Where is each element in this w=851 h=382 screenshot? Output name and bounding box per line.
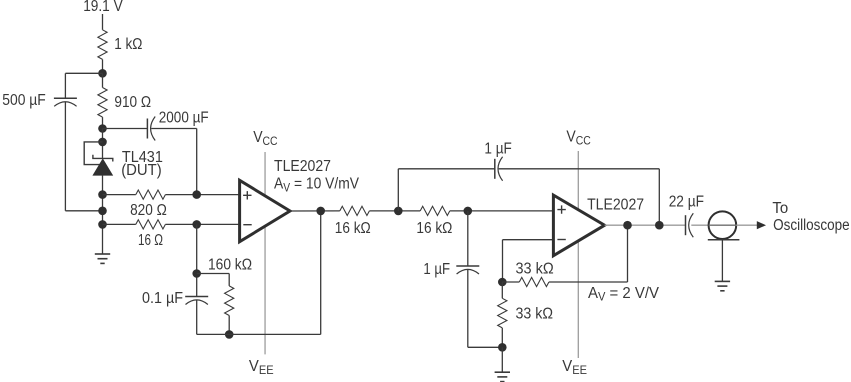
svg-text:19.1 V: 19.1 V [83,0,123,15]
svg-text:500 µF: 500 µF [2,92,46,109]
svg-text:TLE2027: TLE2027 [274,158,331,175]
svg-text:22 µF: 22 µF [669,193,704,210]
svg-text:1 µF: 1 µF [484,141,511,158]
svg-text:160 kΩ: 160 kΩ [208,256,252,273]
svg-text:0.1 µF: 0.1 µF [142,290,183,307]
svg-text:16 Ω: 16 Ω [138,232,163,249]
svg-text:33 kΩ: 33 kΩ [516,261,554,278]
svg-text:TLE2027: TLE2027 [587,196,644,213]
svg-text:16 kΩ: 16 kΩ [335,220,371,237]
svg-text:2000 µF: 2000 µF [159,109,209,126]
svg-text:16 kΩ: 16 kΩ [416,220,452,237]
svg-text:33 kΩ: 33 kΩ [516,305,554,322]
svg-text:910 Ω: 910 Ω [114,94,151,111]
svg-text:To: To [772,200,788,217]
svg-text:820 Ω: 820 Ω [130,202,167,219]
svg-text:1 kΩ: 1 kΩ [114,36,142,53]
svg-text:Oscilloscope: Oscilloscope [773,217,850,234]
svg-text:(DUT): (DUT) [121,162,162,179]
svg-text:1 µF: 1 µF [423,261,450,278]
